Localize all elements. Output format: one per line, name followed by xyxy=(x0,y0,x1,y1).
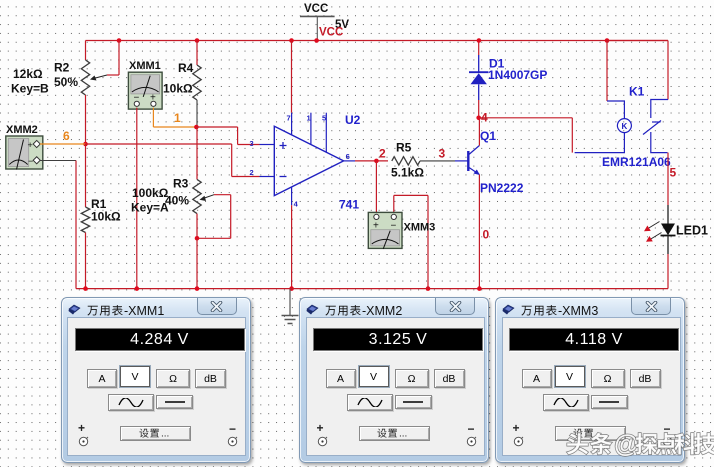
label VCC net (red) xyxy=(319,27,343,39)
node junction Q1 emitter rail xyxy=(477,286,482,291)
svg-text:K: K xyxy=(622,122,628,131)
wire rail to op-amp pin 7 xyxy=(291,41,293,113)
svg-text:10kΩ: 10kΩ xyxy=(91,210,121,224)
wire node 4 to relay coil xyxy=(479,118,573,153)
label net 6 xyxy=(63,129,70,143)
node junction R3 bottom xyxy=(195,236,200,241)
resistor R4 xyxy=(193,38,201,127)
svg-text:...: ... xyxy=(595,429,603,440)
multimeter XMM1 xyxy=(128,72,162,109)
label net 0 xyxy=(483,228,490,242)
svg-text:2: 2 xyxy=(250,168,254,177)
wire R5 to Q1 base xyxy=(420,160,455,162)
relay K1 coil xyxy=(575,38,632,152)
wire XMM1 minus down to ground rail xyxy=(136,108,138,289)
svg-text:Key=A: Key=A xyxy=(131,201,169,215)
label net 1 xyxy=(174,111,181,125)
label Q1 xyxy=(480,129,496,143)
label R3 100k Key=A 40% xyxy=(131,177,189,215)
svg-text:VCC: VCC xyxy=(319,27,343,39)
svg-text:100kΩ: 100kΩ xyxy=(132,186,169,200)
svg-text:12kΩ: 12kΩ xyxy=(13,67,43,81)
svg-text:R2: R2 xyxy=(54,61,70,75)
wire R3 bottom to ground rail xyxy=(196,238,198,288)
node junction R2 wiper branch on rail xyxy=(117,38,122,43)
svg-text:2: 2 xyxy=(379,147,386,161)
label net 3 xyxy=(439,147,446,161)
label EMR121A06 xyxy=(602,155,671,169)
resistor R5 xyxy=(392,157,420,165)
LED LED1 xyxy=(644,205,676,254)
label R5 5.1k xyxy=(391,141,424,180)
node 2 junction xyxy=(374,159,379,164)
wire XMM3 minus to ground rail xyxy=(394,195,428,288)
wire op-amp pin 4 to ground rail xyxy=(291,205,293,288)
node junction XMM3 minus rail xyxy=(426,286,431,291)
label net 2 xyxy=(379,147,386,161)
svg-text:-XMM1: -XMM1 xyxy=(124,304,164,318)
wire op-amp output to XMM3 plus xyxy=(375,161,377,214)
node junction R1 bottom rail xyxy=(83,286,88,291)
svg-text:741: 741 xyxy=(339,198,359,212)
svg-text:40%: 40% xyxy=(165,194,189,208)
relay K1 contact xyxy=(607,41,668,153)
svg-text:3: 3 xyxy=(250,139,254,148)
diode D1 xyxy=(469,41,488,118)
label XMM3 xyxy=(404,222,436,234)
label XMM2 xyxy=(6,124,38,136)
svg-text:7: 7 xyxy=(287,114,291,123)
label R2 value 12k&#937; Key=B 50% xyxy=(11,61,78,96)
wire R2 bottom to node 6 xyxy=(85,95,87,144)
svg-text:U2: U2 xyxy=(345,113,361,127)
svg-text:1N4007GP: 1N4007GP xyxy=(488,68,547,82)
label D1 1N4007GP xyxy=(488,57,547,83)
wire net 6 to op-amp inverting input xyxy=(86,144,260,177)
wire VCC top rail xyxy=(86,40,669,42)
svg-text:-XMM3: -XMM3 xyxy=(558,304,598,318)
wire relay contact to LED1 xyxy=(667,153,669,205)
svg-text:R3: R3 xyxy=(173,177,189,191)
svg-text:XMM1: XMM1 xyxy=(129,60,161,72)
transistor Q1 xyxy=(455,146,480,176)
svg-text:LED1: LED1 xyxy=(676,224,708,238)
label R1 10k xyxy=(91,197,121,224)
label R4 10k xyxy=(163,61,194,96)
multimeter window XMM3 xyxy=(495,297,685,463)
wire node 1 to op-amp non-inverting input xyxy=(196,127,259,145)
wire Q1 emitter to ground rail xyxy=(478,175,480,289)
label K1 xyxy=(629,85,645,99)
svg-text:...: ... xyxy=(161,429,169,440)
wire left branch from rail down to R2 xyxy=(85,41,87,61)
svg-text:Key=B: Key=B xyxy=(11,82,49,96)
svg-text:Q1: Q1 xyxy=(480,129,496,143)
svg-text:10kΩ: 10kΩ xyxy=(163,82,193,96)
svg-text:6: 6 xyxy=(346,152,350,161)
svg-text:1: 1 xyxy=(307,114,311,123)
label U2 xyxy=(345,113,361,127)
node junction ground xyxy=(289,286,294,291)
svg-text:−: − xyxy=(391,221,397,232)
svg-text:50%: 50% xyxy=(54,75,78,89)
svg-text:1: 1 xyxy=(174,111,181,125)
svg-text:PN2222: PN2222 xyxy=(480,181,524,195)
potentiometer R3 xyxy=(193,127,214,238)
svg-text:...: ... xyxy=(399,429,407,440)
wire XMM2 minus down to ground rail xyxy=(40,161,76,289)
node junction XMM1 minus rail xyxy=(135,286,140,291)
node 6 junction xyxy=(83,142,88,147)
wire XMM2 plus to node 6 (net 6, orange) xyxy=(40,143,86,145)
node 4 junction xyxy=(476,116,481,121)
multimeter XMM3 xyxy=(368,212,402,249)
svg-text:EMR121A06: EMR121A06 xyxy=(602,155,671,169)
svg-text:R5: R5 xyxy=(396,141,412,155)
multimeter XMM2 xyxy=(6,136,43,170)
node junction R3 rail xyxy=(195,286,200,291)
node junction op-amp pin7 branch xyxy=(289,38,294,43)
svg-text:K1: K1 xyxy=(629,85,645,99)
svg-text:R4: R4 xyxy=(178,61,194,75)
svg-text:3: 3 xyxy=(439,147,446,161)
label PN2222 xyxy=(480,181,524,195)
op-amp U2 741 xyxy=(250,113,356,209)
wire Q1 collector to node 4 xyxy=(478,118,480,146)
ground symbol xyxy=(282,289,299,324)
potentiometer R2 xyxy=(81,60,107,95)
multimeter window XMM1 xyxy=(61,297,251,463)
svg-text:XMM2: XMM2 xyxy=(6,124,38,136)
label XMM1 xyxy=(129,60,161,72)
label 741 xyxy=(339,198,359,212)
svg-text:6: 6 xyxy=(63,129,70,143)
label LED1 xyxy=(676,224,708,238)
wire XMM1 plus to node 1 (net 1, orange) xyxy=(153,108,196,127)
wire R3 wiper to bottom lead xyxy=(197,195,231,239)
svg-text:-XMM2: -XMM2 xyxy=(362,304,402,318)
svg-text:XMM3: XMM3 xyxy=(404,222,436,234)
svg-text:+: + xyxy=(373,221,379,232)
wire op-amp output to R5 xyxy=(355,160,388,162)
wire ground rail (net 0) xyxy=(76,288,668,290)
svg-text:5.1kΩ: 5.1kΩ xyxy=(391,166,424,180)
node 1 junction xyxy=(194,125,199,130)
wire LED1 to ground rail xyxy=(667,254,669,289)
svg-text:VCC: VCC xyxy=(304,3,328,15)
resistor R1 xyxy=(81,144,89,289)
svg-text:−: − xyxy=(28,156,33,166)
svg-text:5: 5 xyxy=(322,114,326,123)
node junction VCC stem xyxy=(314,38,319,43)
node junction D1 rail xyxy=(477,38,482,43)
label net 5 xyxy=(670,166,677,180)
multimeter window XMM2 xyxy=(299,297,489,463)
label net 4 xyxy=(481,111,488,125)
wire R2 wiper branch xyxy=(107,41,119,76)
svg-text:4: 4 xyxy=(294,200,299,209)
svg-text:+: + xyxy=(28,140,33,150)
VCC power symbol xyxy=(300,3,349,41)
svg-text:0: 0 xyxy=(483,228,490,242)
svg-text:5: 5 xyxy=(670,166,677,180)
